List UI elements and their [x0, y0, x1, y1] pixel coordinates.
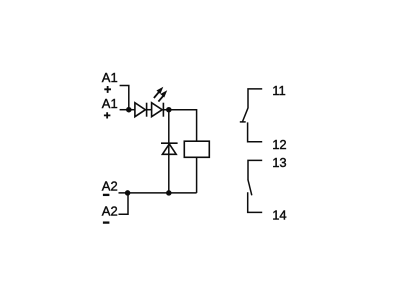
relay coil K1 [184, 141, 209, 157]
svg-text:A1: A1 [102, 70, 118, 85]
wire lower A2 up to node J3 [119, 193, 129, 214]
svg-text:A2: A2 [102, 203, 118, 218]
free-wheeling diode D3 cathode bar [161, 142, 178, 144]
wire lower A1 to diode D1 [120, 109, 135, 111]
NC contact 11-12 bottom lead [248, 122, 263, 141]
NC contact 11-12 top lead [248, 89, 262, 109]
polarity + of upper A1 [104, 86, 111, 93]
NO contact 13-14 blade [248, 180, 252, 196]
svg-text:A1: A1 [102, 96, 118, 111]
polarity - of upper A2 [103, 194, 110, 196]
free-wheeling diode D3 triangle [162, 144, 176, 154]
svg-text:A2: A2 [102, 178, 118, 193]
node J4 junction dot [166, 190, 172, 196]
node J2 junction dot [166, 107, 172, 113]
node J3 junction dot [125, 190, 131, 196]
diode D1 [135, 103, 147, 117]
NO contact 13-14 bottom lead [248, 192, 263, 212]
LED D2 [152, 103, 164, 117]
LED light emission arrow right [158, 90, 167, 101]
wire relay coil bottom to A2 rail [196, 157, 198, 193]
wire upper A1 to node J1 [120, 86, 129, 109]
NO contact 13-14 top lead [248, 160, 262, 179]
svg-text:11: 11 [272, 83, 286, 98]
svg-text:14: 14 [272, 208, 286, 223]
wire LED to node J2 and on to relay coil top [163, 110, 196, 142]
wire A2 rail [119, 192, 197, 194]
svg-text:12: 12 [272, 137, 286, 152]
wire node J2 down to free-wheeling diode D3 [168, 110, 170, 193]
svg-text:13: 13 [272, 155, 286, 170]
NC contact 11-12 seat tick [240, 121, 246, 123]
node J1 junction dot [126, 107, 132, 113]
polarity + of lower A1 [104, 112, 111, 118]
NC contact 11-12 blade [242, 108, 248, 122]
LED light emission arrow left [154, 87, 163, 98]
polarity - of lower A2 [103, 221, 110, 223]
wire D1 to LED [145, 109, 151, 111]
